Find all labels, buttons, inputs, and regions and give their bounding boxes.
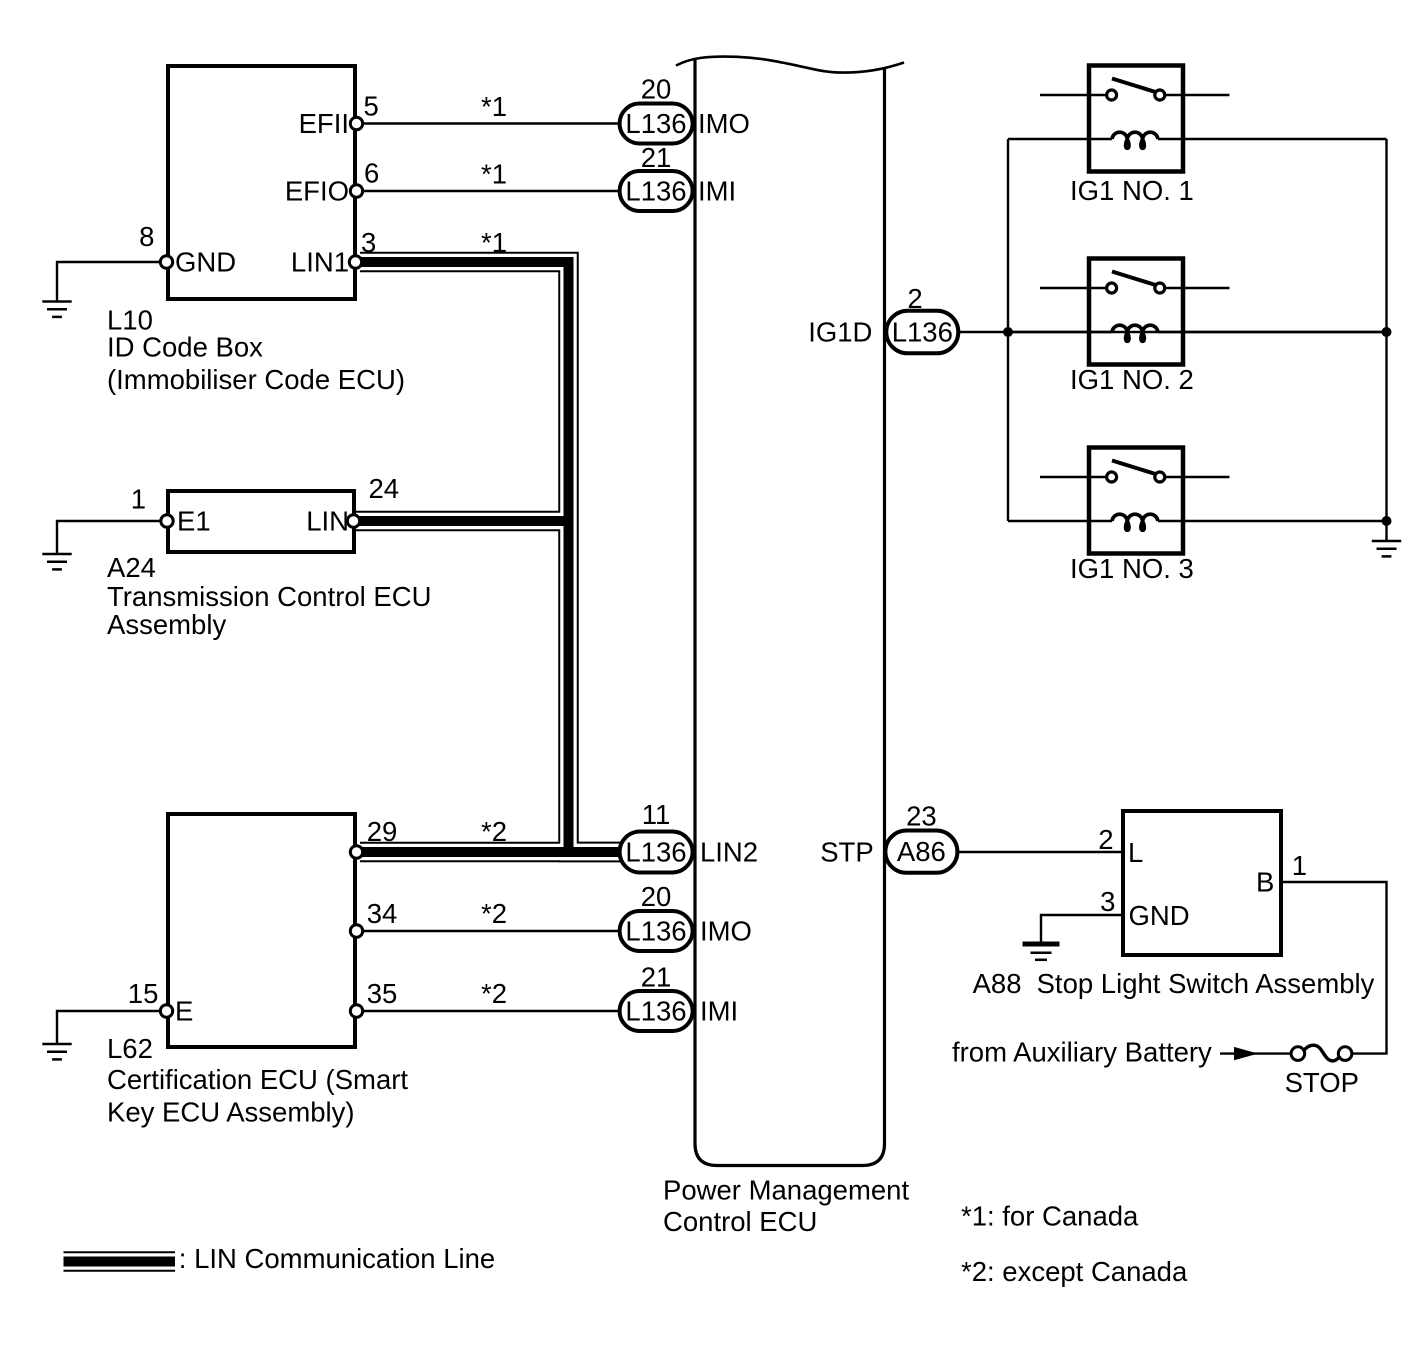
svg-text:IMI: IMI [700, 996, 738, 1027]
wire stop light B pin1 to fuse STOP [1281, 882, 1387, 1054]
wire IG1D L136 to relay bus [956, 331, 1387, 333]
svg-text:1: 1 [1292, 850, 1307, 881]
pin circle A24 LIN (24) [347, 515, 359, 527]
svg-text:35: 35 [367, 978, 398, 1009]
svg-text:20: 20 [641, 74, 672, 105]
svg-text:E1: E1 [177, 506, 211, 537]
svg-text:EFIO: EFIO [285, 176, 349, 207]
svg-text:B: B [1256, 867, 1274, 898]
relay switch blade [1112, 461, 1156, 475]
pin circle L10 EFII (5) [350, 117, 362, 129]
svg-text:21: 21 [641, 962, 672, 993]
connector oval L136 (IMO row, pin 20) [620, 104, 693, 144]
pin circle L10 GND (8) [160, 256, 172, 268]
box L10 ID Code Box [168, 66, 355, 299]
svg-text:L: L [1128, 837, 1143, 868]
box A88 Stop Light Switch Assembly [1123, 811, 1281, 955]
connector oval L136 (IMO row, pin 20, L62) [620, 911, 693, 951]
wire L10 EFII pin5 to L136 [360, 122, 622, 124]
wire L10 EFIO pin6 to L136 [360, 190, 622, 192]
svg-text:EFII: EFII [299, 108, 349, 139]
arrow from auxiliary battery [1234, 1047, 1258, 1060]
svg-text:E: E [175, 996, 193, 1027]
relay IG1 NO.2 box [1089, 259, 1183, 365]
wire L62 EFII pin34 to L136 [360, 930, 622, 932]
relay IG1 NO.3 box [1089, 448, 1183, 554]
svg-text:ID Code Box: ID Code Box [107, 332, 263, 363]
connector oval L136 (IG1D, pin 2) [886, 311, 958, 354]
wire LIN bus outline layer [360, 262, 622, 852]
svg-text:20: 20 [641, 881, 672, 912]
svg-text:34: 34 [367, 898, 398, 929]
svg-text:3: 3 [361, 227, 376, 258]
svg-text:Stop Light Switch Assembly: Stop Light Switch Assembly [1037, 968, 1375, 999]
wire L62 LIN to LIN2 oval [360, 847, 622, 857]
pin circle L10 LIN1 (3) [349, 256, 361, 268]
ground symbol A88 (thick top bar) [1023, 944, 1060, 960]
svg-text:*1: *1 [481, 159, 507, 190]
wire stop light GND pin3 to ground [1041, 915, 1123, 942]
svg-text:*1: *1 [481, 91, 507, 122]
relay switch contact right [1155, 472, 1165, 482]
svg-text:STOP: STOP [1285, 1067, 1359, 1098]
ground symbol A24 [42, 554, 71, 569]
connector oval L136 (LIN2 row, pin 11) [620, 832, 693, 873]
svg-text:L136: L136 [625, 916, 686, 947]
wire A24 E1 pin1 to ground [57, 521, 163, 554]
relay switch contact left [1107, 283, 1117, 293]
junction dot right relay bus / coil2 [1382, 327, 1392, 337]
svg-text:L62: L62 [107, 1033, 153, 1064]
WIRES-THIN [57, 95, 1387, 1054]
svg-text:IMO: IMO [700, 916, 752, 947]
svg-text:: LIN Communication Line: : LIN Communication Line [179, 1243, 495, 1274]
svg-text:*1: *1 [481, 227, 507, 258]
relay switch blade [1112, 79, 1156, 93]
wire L62 E pin15 to ground [57, 1011, 163, 1044]
svg-text:*2: *2 [481, 898, 507, 929]
svg-text:21: 21 [641, 142, 672, 173]
legend LIN communication line sample [64, 1257, 176, 1267]
wire relay2 coil line [1008, 331, 1112, 333]
wire A86 STP to stop light switch L pin2 [955, 851, 1123, 853]
wire L62 EFIO pin35 to L136 [360, 1010, 622, 1012]
svg-text:29: 29 [367, 816, 398, 847]
svg-text:L136: L136 [625, 996, 686, 1027]
svg-text:5: 5 [364, 91, 379, 122]
svg-text:24: 24 [369, 473, 400, 504]
svg-text:IMO: IMO [698, 108, 750, 139]
junction dot left relay bus / IG1D [1003, 327, 1013, 337]
box L62 Certification ECU [168, 814, 355, 1047]
svg-text:GND: GND [1129, 900, 1190, 931]
connector oval L136 (IMI row, pin 21) [620, 171, 693, 211]
svg-text:IG1D: IG1D [808, 317, 872, 348]
svg-text:L136: L136 [625, 108, 686, 139]
svg-text:Assembly: Assembly [107, 609, 226, 640]
svg-text:A86: A86 [897, 836, 946, 867]
relay coil IG1 NO.2 [1112, 325, 1158, 341]
svg-text:(Immobiliser Code ECU): (Immobiliser Code ECU) [107, 364, 405, 395]
svg-text:IMI: IMI [698, 176, 736, 207]
relay switch contact left [1107, 472, 1117, 482]
svg-text:from Auxiliary Battery: from Auxiliary Battery [952, 1037, 1212, 1068]
ECU Power Management box outline [695, 60, 885, 1166]
svg-text:11: 11 [642, 799, 671, 830]
relay coil IG1 NO.3 [1112, 514, 1158, 530]
pin circle L62 EFII (34) [350, 925, 362, 937]
wire A24 LIN to bus [354, 516, 569, 526]
connector oval L136 (IMI row, pin 21, L62) [620, 991, 693, 1031]
svg-text:Control ECU: Control ECU [663, 1206, 817, 1237]
svg-text:*2: except Canada: *2: except Canada [961, 1256, 1188, 1287]
svg-text:LIN2: LIN2 [700, 837, 758, 868]
ECU torn-edge wavy top [676, 57, 904, 73]
svg-text:23: 23 [906, 801, 937, 832]
svg-text:IG1 NO. 3: IG1 NO. 3 [1070, 553, 1194, 584]
svg-text:Certification ECU (Smart: Certification ECU (Smart [107, 1064, 408, 1095]
wire L10 GND pin8 to ground [57, 262, 163, 301]
fuse STOP symbol [1291, 1045, 1352, 1061]
relay IG1 NO.1 box [1089, 66, 1183, 172]
relay switch contact left [1107, 90, 1117, 100]
svg-text:L136: L136 [892, 317, 953, 348]
svg-text:2: 2 [1098, 824, 1113, 855]
svg-text:6: 6 [364, 158, 379, 189]
svg-text:LIN1: LIN1 [291, 247, 349, 278]
box A24 Transmission Control ECU [168, 491, 354, 552]
svg-text:3: 3 [1100, 886, 1115, 917]
wire from auxiliary battery to fuse [1220, 1052, 1292, 1054]
ground symbol relay bus [1372, 541, 1401, 556]
wire relay1 switch stubs [1040, 94, 1106, 96]
wire relay3 coil line [1008, 520, 1112, 522]
pin circle L62 EFIO (35) [350, 1005, 362, 1017]
pin circle A24 E1 (1) [161, 515, 173, 527]
svg-text:15: 15 [128, 978, 159, 1009]
svg-text:IG1 NO. 2: IG1 NO. 2 [1070, 364, 1194, 395]
wire relay bus left vertical [1007, 139, 1009, 521]
svg-text:*1: for Canada: *1: for Canada [961, 1201, 1139, 1232]
svg-text:IG1 NO. 1: IG1 NO. 1 [1070, 175, 1194, 206]
pin circle L62 E (15) [160, 1005, 172, 1017]
relay coil IG1 NO.1 [1112, 132, 1158, 148]
pin circle L62 LIN (29) [350, 846, 362, 858]
svg-text:Transmission Control ECU: Transmission Control ECU [107, 581, 431, 612]
svg-text:A88: A88 [973, 968, 1022, 999]
junction dot right relay bus / coil3 [1382, 516, 1392, 526]
wire relay bus right vertical [1385, 139, 1387, 541]
relay switch contact right [1155, 283, 1165, 293]
svg-text:L136: L136 [625, 837, 686, 868]
wire relay1 coil line [1008, 138, 1112, 140]
svg-text:A24: A24 [107, 552, 156, 583]
ground symbol L62 [42, 1044, 71, 1059]
relay switch blade [1112, 272, 1156, 286]
ground symbol L10 [42, 302, 71, 317]
svg-text:STP: STP [820, 837, 873, 868]
wire relay2 switch stubs [1040, 287, 1106, 289]
relay switch contact right [1155, 90, 1165, 100]
wire relay3 switch stubs [1040, 476, 1106, 478]
svg-text:1: 1 [131, 484, 146, 515]
connector oval A86 (STP, pin 23) [885, 831, 957, 873]
svg-text:*2: *2 [481, 978, 507, 1009]
svg-text:*2: *2 [481, 816, 507, 847]
wire LIN bus white gap layer [360, 262, 622, 852]
LIN COMMUNICATION THICK LINES (3-layer) [64, 262, 623, 1262]
svg-text:Power Management: Power Management [663, 1175, 909, 1206]
svg-text:L136: L136 [625, 176, 686, 207]
svg-text:8: 8 [139, 221, 154, 252]
svg-text:GND: GND [175, 247, 236, 278]
pin circle L10 EFIO (6) [350, 185, 362, 197]
svg-text:LIN: LIN [306, 506, 349, 537]
svg-text:Key ECU Assembly): Key ECU Assembly) [107, 1097, 355, 1128]
svg-text:2: 2 [907, 283, 922, 314]
wire LIN bus: L10 LIN1 down to LIN2 oval [360, 262, 622, 852]
